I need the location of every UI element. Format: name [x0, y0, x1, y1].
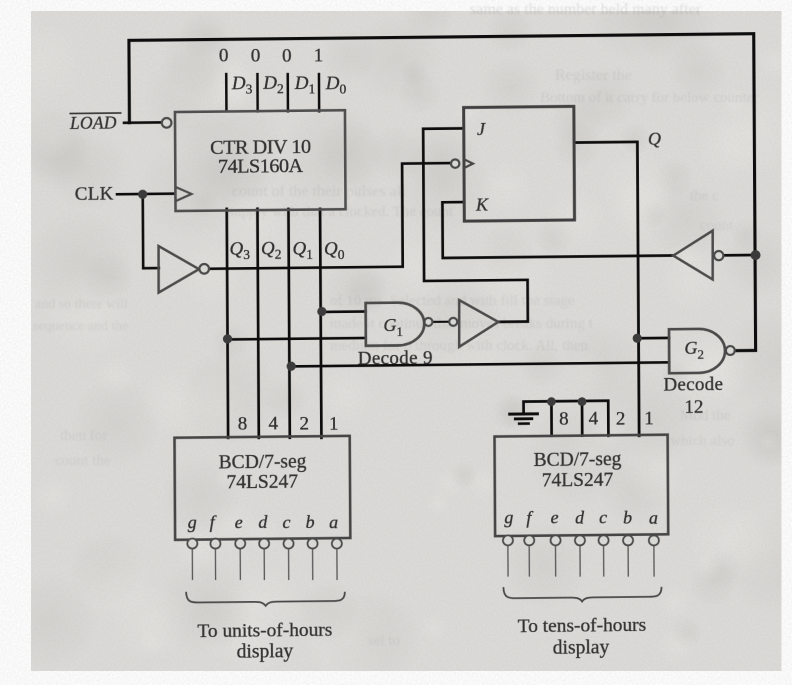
svg-text:Q: Q: [648, 129, 661, 149]
svg-text:same as the number held many a: same as the number held many after: [470, 1, 702, 18]
svg-text:1: 1: [329, 413, 339, 434]
svg-text:J: J: [477, 119, 486, 139]
svg-text:the c: the c: [690, 188, 719, 204]
svg-text:display: display: [553, 637, 610, 659]
svg-text:e: e: [551, 507, 559, 527]
svg-text:4: 4: [589, 408, 599, 429]
svg-text:which also: which also: [670, 433, 735, 449]
svg-text:LOAD: LOAD: [69, 113, 117, 134]
svg-text:display: display: [237, 641, 294, 663]
svg-text:d: d: [258, 512, 268, 532]
svg-text:a: a: [329, 512, 338, 532]
svg-text:K: K: [475, 194, 489, 214]
svg-text:Decode 9: Decode 9: [358, 348, 433, 370]
svg-text:To units-of-hours: To units-of-hours: [197, 619, 332, 641]
svg-text:CLK: CLK: [75, 184, 114, 205]
svg-text:2: 2: [300, 413, 310, 434]
svg-text:g: g: [188, 512, 197, 532]
svg-text:To tens-of-hours: To tens-of-hours: [518, 615, 647, 637]
svg-text:BCD/7-seg: BCD/7-seg: [534, 449, 622, 471]
svg-text:BCD/7-seg: BCD/7-seg: [219, 451, 307, 473]
svg-text:1: 1: [644, 408, 654, 429]
svg-text:4: 4: [268, 413, 278, 434]
svg-text:d: d: [575, 507, 585, 527]
svg-text:Decode: Decode: [663, 374, 723, 396]
svg-text:c: c: [599, 507, 607, 527]
svg-text:count: count: [700, 218, 734, 234]
svg-text:g: g: [504, 507, 513, 527]
svg-text:74LS247: 74LS247: [542, 469, 614, 491]
svg-text:sel to: sel to: [368, 633, 400, 649]
svg-text:sequence and the: sequence and the: [33, 319, 129, 334]
svg-text:12: 12: [684, 397, 703, 418]
svg-text:and so there will: and so there will: [35, 297, 128, 312]
svg-text:74LS247: 74LS247: [226, 472, 298, 494]
svg-text:count the: count the: [55, 453, 111, 469]
svg-text:e: e: [235, 512, 243, 532]
svg-text:8: 8: [238, 413, 248, 434]
svg-text:0: 0: [251, 45, 261, 66]
svg-text:made it continue that moves br: made it continue that moves breaks durin…: [330, 316, 594, 332]
svg-text:2: 2: [616, 408, 626, 429]
svg-text:Register the: Register the: [555, 67, 632, 84]
svg-text:a: a: [649, 507, 658, 527]
svg-text:0: 0: [282, 45, 292, 66]
svg-text:b: b: [623, 507, 632, 527]
svg-text:1: 1: [314, 45, 324, 66]
svg-text:then for: then for: [60, 428, 107, 444]
svg-text:c: c: [282, 512, 290, 532]
svg-text:count of the their pulses all: count of the their pulses all: [232, 183, 406, 200]
svg-text:Bottom of it carry for below c: Bottom of it carry for below counter: [540, 90, 758, 106]
svg-text:0: 0: [219, 45, 229, 66]
svg-text:8: 8: [559, 408, 569, 429]
svg-text:supply with that a clocked. Th: supply with that a clocked. The count: [228, 204, 454, 220]
svg-text:b: b: [306, 512, 315, 532]
svg-text:74LS160A: 74LS160A: [218, 155, 304, 178]
